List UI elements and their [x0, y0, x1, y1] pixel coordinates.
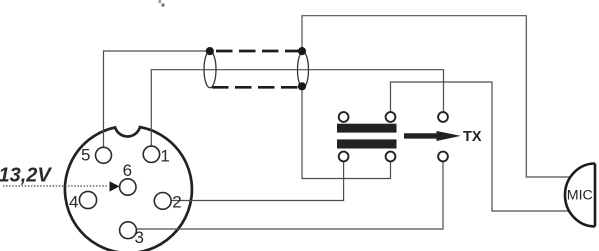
svg-text:2: 2	[172, 193, 181, 212]
svg-text:4: 4	[69, 192, 78, 211]
svg-text:3: 3	[135, 228, 144, 247]
svg-text:1: 1	[160, 147, 169, 166]
svg-text:TX: TX	[463, 129, 482, 145]
svg-text:6: 6	[123, 161, 132, 180]
svg-text:MIC: MIC	[567, 188, 593, 204]
svg-text:5: 5	[81, 146, 90, 165]
svg-text:13,2V: 13,2V	[0, 165, 52, 187]
